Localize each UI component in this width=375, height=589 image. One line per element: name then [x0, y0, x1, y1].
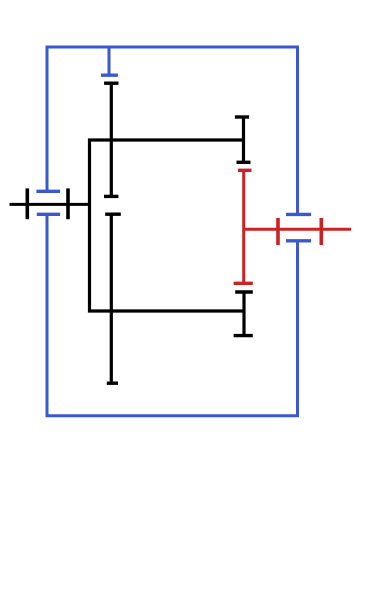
- input shaft (black, left): [10, 203, 90, 206]
- gear tick, central upper top: [104, 81, 118, 84]
- gear tick, right lower bottom: [234, 334, 253, 337]
- gear tick on input shaft (left): [25, 188, 29, 219]
- gear tick on output shaft (right): [319, 218, 323, 245]
- gear tick, red vertical end: [234, 282, 253, 285]
- gear tick, central upper bottom: [104, 195, 118, 198]
- central upper shaft (black): [110, 83, 113, 196]
- gear tick, blue left upper: [36, 190, 60, 193]
- gear tick, blue right upper: [286, 213, 311, 216]
- central lower shaft (black): [110, 214, 113, 383]
- gear tick, red vertical top: [238, 169, 252, 172]
- right upper shaft (black): [242, 117, 245, 162]
- gear tick, central lower end: [107, 382, 118, 385]
- gear tick, right lower top: [235, 290, 253, 293]
- gear tick, right upper bottom: [237, 161, 251, 164]
- gear tick on output shaft (left): [276, 218, 280, 245]
- gear tick, central lower top: [105, 212, 121, 215]
- gear tick, blue left lower: [37, 213, 60, 216]
- frame (blue housing), bottom + lower verticals: [47, 215, 298, 416]
- frame (blue housing), top + upper verticals: [47, 47, 298, 214]
- gear tick, right upper top: [235, 115, 249, 118]
- carrier frame (black rectangle rails): [90, 140, 244, 311]
- right lower shaft (black): [242, 292, 245, 336]
- output shaft (red, horizontal): [244, 228, 351, 231]
- gear tick, blue right lower: [286, 239, 311, 242]
- gear tick on input shaft (right): [66, 188, 70, 219]
- wire: blue stub from top rail: [108, 47, 111, 75]
- output vertical shaft (red): [242, 170, 245, 283]
- gear tick on blue stub: [101, 73, 118, 76]
